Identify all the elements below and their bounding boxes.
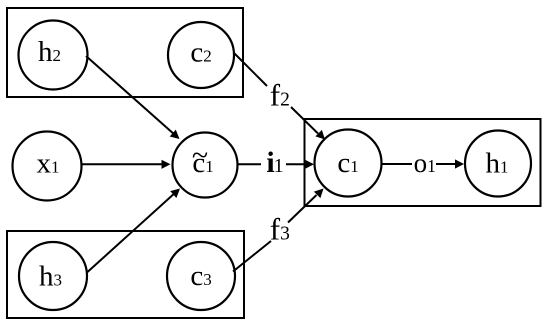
arrow h2 to c~1 (86, 56, 180, 139)
box top-left (h2,c2 group) (7, 8, 243, 97)
node c1 (cell state) (315, 130, 382, 197)
arrow f3 to c1 (288, 189, 324, 223)
box right (c1,h1 group) (305, 119, 541, 206)
wire c1 to label o1 (382, 163, 413, 165)
arrow h3 to c~1 (88, 189, 181, 273)
node c2 (168, 22, 234, 88)
svg-text:~: ~ (192, 139, 208, 172)
arrow o1 to h1 (436, 159, 464, 168)
node x1 (13, 132, 82, 201)
arrow x1 to c~1 (82, 160, 171, 169)
node c3 (167, 242, 235, 310)
arrow i1 to c1 (286, 160, 314, 169)
node h1 (465, 131, 531, 197)
node c~1 (candidate cell) (173, 133, 238, 198)
node h2 (19, 21, 88, 90)
box bottom-left (h3,c3 group) (7, 231, 244, 318)
arrow f2 to c1 (291, 107, 325, 140)
wire c3 to label f3 (233, 241, 271, 272)
wire c~1 to label i1 (237, 163, 261, 165)
wire c2 to label f2 (234, 53, 268, 87)
node h3 (19, 242, 87, 310)
